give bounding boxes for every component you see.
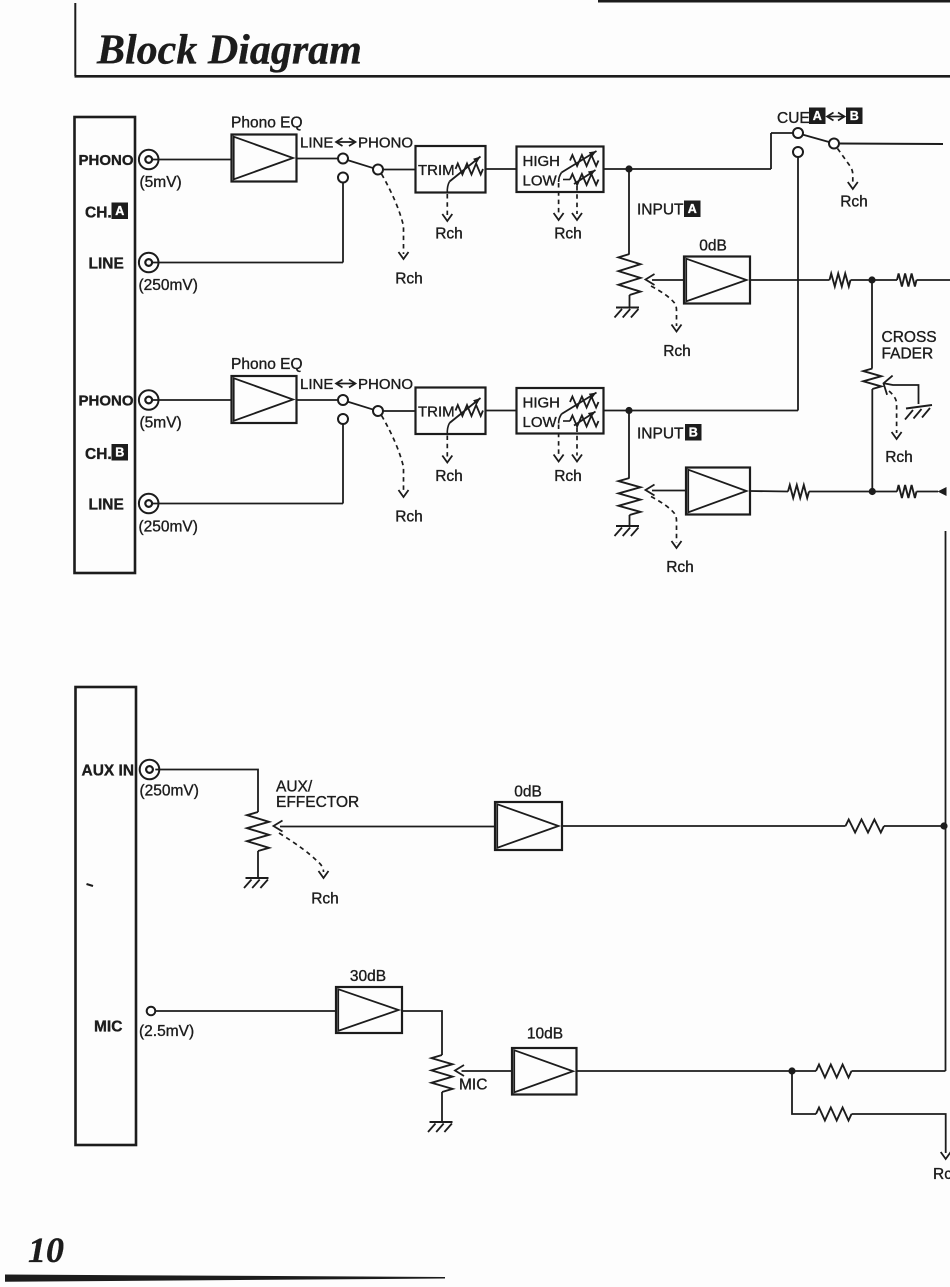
trim pot arrow ch A xyxy=(450,157,481,182)
crossfader wiper arrow xyxy=(884,376,893,395)
svg-text:PHONO: PHONO xyxy=(79,393,134,410)
input panel box channels A-B xyxy=(75,117,136,573)
wire node B to cue riser xyxy=(629,410,798,412)
svg-text:Rch: Rch xyxy=(933,1166,950,1183)
title block bottom rule xyxy=(75,75,950,78)
wire node A to CUE riser xyxy=(629,168,771,170)
switch contact phono ch B xyxy=(338,395,348,405)
ground crossfader xyxy=(906,405,932,409)
wire aux to right bus xyxy=(884,825,946,827)
svg-text:MIC: MIC xyxy=(94,1019,122,1036)
phono EQ amp ch A xyxy=(232,135,297,182)
high pot arrow ch B xyxy=(562,393,597,415)
svg-text:10: 10 xyxy=(28,1230,64,1270)
svg-text:INPUT: INPUT xyxy=(637,202,684,219)
wire mic top to right bus xyxy=(852,1070,946,1072)
wire line A horizontal xyxy=(152,262,343,264)
svg-text:Rch: Rch xyxy=(395,271,423,288)
svg-text:A: A xyxy=(813,109,822,123)
fader A wiper arrow xyxy=(646,274,655,285)
wire mic top branch xyxy=(792,1070,816,1072)
svg-text:A: A xyxy=(688,202,697,216)
eq B Rch dashed trace 2 xyxy=(576,428,578,456)
connector jack LINE ch A xyxy=(139,253,159,273)
fader B wiper arrow xyxy=(646,485,655,496)
node mix bus B xyxy=(869,488,876,495)
node junction INPUT B xyxy=(625,407,632,414)
high pot arrow ch A xyxy=(562,151,597,173)
resistor mix B1 xyxy=(788,485,809,498)
svg-text:TRIM: TRIM xyxy=(418,404,455,421)
phono EQ amp ch B xyxy=(232,376,297,423)
svg-text:Rch: Rch xyxy=(663,343,691,360)
HIGH LOW box ch B xyxy=(517,388,604,434)
wire CUE riser A xyxy=(770,133,772,169)
svg-text:HIGH: HIGH xyxy=(523,153,561,170)
mic wiper arrow xyxy=(455,1065,464,1076)
svg-text:Block Diagram: Block Diagram xyxy=(96,28,362,74)
wire resistor B to node xyxy=(809,491,897,493)
svg-text:CUE: CUE xyxy=(777,110,810,127)
wire mic bottom out xyxy=(852,1114,946,1153)
svg-text:CH.: CH. xyxy=(85,205,112,222)
wire riser to CUE contact A xyxy=(771,132,793,134)
svg-text:0dB: 0dB xyxy=(514,784,542,801)
svg-text:CROSS: CROSS xyxy=(882,329,937,346)
svg-text:B: B xyxy=(115,446,124,460)
fader B Rch arrowhead xyxy=(672,541,682,548)
svg-text:PHONO: PHONO xyxy=(358,376,413,393)
switch A Rch dashed trace xyxy=(382,174,404,254)
aux wiper arrow xyxy=(274,821,283,832)
svg-text:Rch: Rch xyxy=(435,226,463,243)
cue Rch dashed trace xyxy=(838,149,853,184)
svg-text:LINE: LINE xyxy=(300,376,333,393)
switch B Rch dashed trace xyxy=(382,415,404,492)
wire right bus vertical xyxy=(945,531,947,1071)
eq A Rch arrowhead 2 xyxy=(572,213,582,220)
wire mic amp2 out xyxy=(577,1070,793,1072)
wire mic pot to ground xyxy=(441,1092,443,1122)
svg-text:(5mV): (5mV) xyxy=(140,415,182,432)
svg-text:(2.5mV): (2.5mV) xyxy=(139,1023,194,1040)
connector MIC xyxy=(147,1007,156,1016)
bottom bar xyxy=(5,1275,445,1282)
trim pot ch B xyxy=(456,405,484,416)
svg-text:Phono EQ: Phono EQ xyxy=(231,115,303,132)
resistor mix A2 xyxy=(897,274,917,287)
resistor aux out xyxy=(846,820,885,833)
eq B Rch arrowhead 2 xyxy=(572,455,582,462)
svg-text:PHONO: PHONO xyxy=(358,135,413,152)
input panel box aux-mic xyxy=(76,687,137,1145)
svg-text:B: B xyxy=(850,109,859,123)
fader B Rch dashed trace xyxy=(651,497,677,543)
label A black box xyxy=(112,203,129,220)
wire amp A out xyxy=(750,279,830,281)
node mic split xyxy=(788,1067,795,1074)
wire phono B to EQ xyxy=(152,399,231,401)
svg-text:Rch: Rch xyxy=(435,468,463,485)
trim A Rch dashed trace xyxy=(447,182,449,193)
top edge black line xyxy=(598,0,950,3)
mic pot xyxy=(432,1055,453,1092)
switch lever ch B xyxy=(348,402,374,410)
node junction INPUT A xyxy=(625,165,632,172)
svg-text:LINE: LINE xyxy=(300,135,333,152)
label cue arrow xyxy=(829,116,844,118)
connector jack PHONO ch B xyxy=(139,390,159,410)
wire node A down to fader xyxy=(628,169,630,254)
svg-text:Rch: Rch xyxy=(885,449,913,466)
switch contact line ch A xyxy=(338,173,348,183)
svg-text:(250mV): (250mV) xyxy=(140,783,199,800)
stray mark xyxy=(87,884,94,886)
svg-text:LINE: LINE xyxy=(89,497,124,514)
eq A Rch dashed trace 2 xyxy=(576,186,578,214)
wire cue out xyxy=(839,143,943,146)
svg-text:Phono EQ: Phono EQ xyxy=(231,356,303,373)
switch common ch A xyxy=(373,165,383,175)
TRIM box ch B xyxy=(416,388,486,435)
aux Rch dashed trace xyxy=(279,833,324,872)
svg-text:(250mV): (250mV) xyxy=(139,519,198,536)
svg-text:10dB: 10dB xyxy=(527,1026,563,1043)
resistor mic top xyxy=(816,1065,852,1078)
cue lever xyxy=(803,135,830,143)
svg-text:(5mV): (5mV) xyxy=(140,174,182,191)
wire mic in xyxy=(155,1010,336,1012)
low pot lead ch B xyxy=(563,420,570,422)
aux pot xyxy=(247,812,269,851)
cue Rch arrowhead xyxy=(848,182,858,189)
svg-text:MIC: MIC xyxy=(459,1077,487,1094)
fader A Rch dashed trace xyxy=(651,286,677,326)
trim B Rch dashed trace xyxy=(447,423,449,434)
switch common ch B xyxy=(373,406,383,416)
wire phono A to EQ xyxy=(152,159,231,161)
svg-text:Rch: Rch xyxy=(395,509,423,526)
svg-text:INPUT: INPUT xyxy=(637,426,684,443)
node aux right bus xyxy=(940,822,947,829)
ground fader B xyxy=(616,525,639,527)
svg-text:A: A xyxy=(115,204,124,218)
low pot arrow ch B xyxy=(574,412,596,426)
low pot lead ch A xyxy=(563,179,570,181)
switch contact phono ch A xyxy=(338,154,348,164)
label B black box cue xyxy=(846,108,863,125)
svg-text:Rch: Rch xyxy=(554,468,582,485)
svg-text:HIGH: HIGH xyxy=(523,395,561,412)
wire EQ A to switch xyxy=(297,158,339,160)
wire line B horizontal xyxy=(152,503,343,505)
crossfader Rch dashed trace xyxy=(889,391,897,433)
wire aux amp out xyxy=(562,825,846,827)
svg-text:AUX IN: AUX IN xyxy=(82,763,135,780)
wire EQbox A to node xyxy=(604,168,630,170)
wire EQbox B to node xyxy=(604,410,630,412)
label B black box input xyxy=(685,424,702,441)
wire aux in xyxy=(155,770,258,813)
svg-text:LOW: LOW xyxy=(523,414,558,431)
switch B Rch arrowhead xyxy=(399,490,409,497)
resistor mix B2 xyxy=(897,485,917,498)
svg-text:CH.: CH. xyxy=(85,446,112,463)
low pot ch B xyxy=(570,416,599,427)
switch A Rch arrowhead xyxy=(399,252,409,259)
eq A Rch arrowhead 1 xyxy=(554,213,564,220)
TRIM box ch A xyxy=(416,146,486,193)
cue contact B xyxy=(793,147,803,157)
ground mic xyxy=(430,1121,453,1123)
low pot arrow ch A xyxy=(574,170,596,184)
wire mic bottom branch xyxy=(792,1071,816,1114)
resistor mix A1 xyxy=(830,274,851,287)
low pot ch A xyxy=(570,174,599,185)
wire EQ B to switch xyxy=(297,399,339,401)
cue contact A xyxy=(793,128,803,138)
wire TRIM A to EQbox xyxy=(486,168,517,170)
label A black box cue xyxy=(809,108,826,125)
wire switch A to TRIM xyxy=(383,169,416,171)
svg-text:LOW: LOW xyxy=(523,173,558,190)
cue common contact xyxy=(829,139,839,149)
svg-text:PHONO: PHONO xyxy=(79,152,134,169)
connector jack PHONO ch A xyxy=(139,150,159,170)
cross fader pot xyxy=(863,369,881,390)
fader INPUT A xyxy=(619,254,641,295)
svg-text:Rch: Rch xyxy=(311,891,339,908)
wire node A down to crossfader xyxy=(871,280,873,369)
node mix bus A xyxy=(868,276,875,283)
wire amp B out xyxy=(750,490,788,493)
svg-text:B: B xyxy=(689,426,698,440)
wire crossfader to node B xyxy=(871,389,873,492)
crossfader Rch arrowhead xyxy=(892,432,902,439)
svg-text:EFFECTOR: EFFECTOR xyxy=(276,794,359,811)
resistor mic bottom xyxy=(816,1108,852,1121)
trim pot ch A xyxy=(456,164,484,175)
wire cue B riser xyxy=(797,157,799,411)
trim pot arrow ch B xyxy=(450,398,481,423)
eq B Rch arrowhead 1 xyxy=(554,455,564,462)
fader INPUT B xyxy=(619,478,641,515)
svg-text:Rch: Rch xyxy=(666,559,694,576)
eq B Rch dashed trace 1 xyxy=(559,414,562,424)
trim B Rch arrowhead xyxy=(442,456,452,463)
svg-text:AUX/: AUX/ xyxy=(276,779,313,796)
svg-text:LINE: LINE xyxy=(89,256,124,273)
wire mix A out xyxy=(917,279,950,281)
amplifier 30dB mic xyxy=(336,987,402,1033)
eq A Rch dashed trace 1 xyxy=(559,173,562,183)
wire fader B to ground xyxy=(629,515,631,526)
svg-text:30dB: 30dB xyxy=(350,968,386,985)
label B black box xyxy=(112,444,129,461)
wire node B down to fader xyxy=(628,411,630,479)
HIGH LOW box ch A xyxy=(517,147,604,193)
wire aux pot to ground xyxy=(257,851,259,878)
ground fader A xyxy=(616,307,639,309)
mic Rch arrowhead xyxy=(941,1152,950,1159)
title block left rule xyxy=(74,3,76,76)
wire mic amp out xyxy=(402,1011,442,1055)
connector jack AUX IN xyxy=(140,760,160,780)
amplifier 0dB ch A xyxy=(684,257,750,304)
wire line B vertical xyxy=(342,424,344,504)
aux Rch arrowhead xyxy=(319,871,329,878)
wire fader A to ground xyxy=(629,295,631,308)
ground aux xyxy=(246,877,269,879)
trim A Rch arrowhead xyxy=(442,214,452,221)
switch contact line ch B xyxy=(338,414,348,424)
wire resistor A to node xyxy=(851,279,898,281)
high pot ch B xyxy=(570,397,599,408)
label A black box input xyxy=(684,201,701,218)
connector jack LINE ch B xyxy=(139,494,159,514)
svg-text:0dB: 0dB xyxy=(699,238,727,255)
fader A Rch arrowhead xyxy=(672,325,682,332)
wire switch B to TRIM xyxy=(383,410,416,412)
wire TRIM B to EQbox xyxy=(486,410,517,412)
svg-text:FADER: FADER xyxy=(882,346,934,363)
svg-text:(250mV): (250mV) xyxy=(139,277,198,294)
amplifier ch B xyxy=(686,468,750,515)
wire line A vertical xyxy=(342,183,344,263)
switch lever ch A xyxy=(348,160,374,168)
svg-text:Rch: Rch xyxy=(554,226,582,243)
high pot ch A xyxy=(570,155,599,166)
mix B off-page arrowhead xyxy=(938,487,947,496)
amplifier 10dB mic xyxy=(512,1048,577,1095)
amplifier 0dB aux xyxy=(495,802,562,850)
svg-text:TRIM: TRIM xyxy=(418,162,455,179)
wire mix B out xyxy=(917,491,939,493)
svg-text:Rch: Rch xyxy=(840,194,868,211)
